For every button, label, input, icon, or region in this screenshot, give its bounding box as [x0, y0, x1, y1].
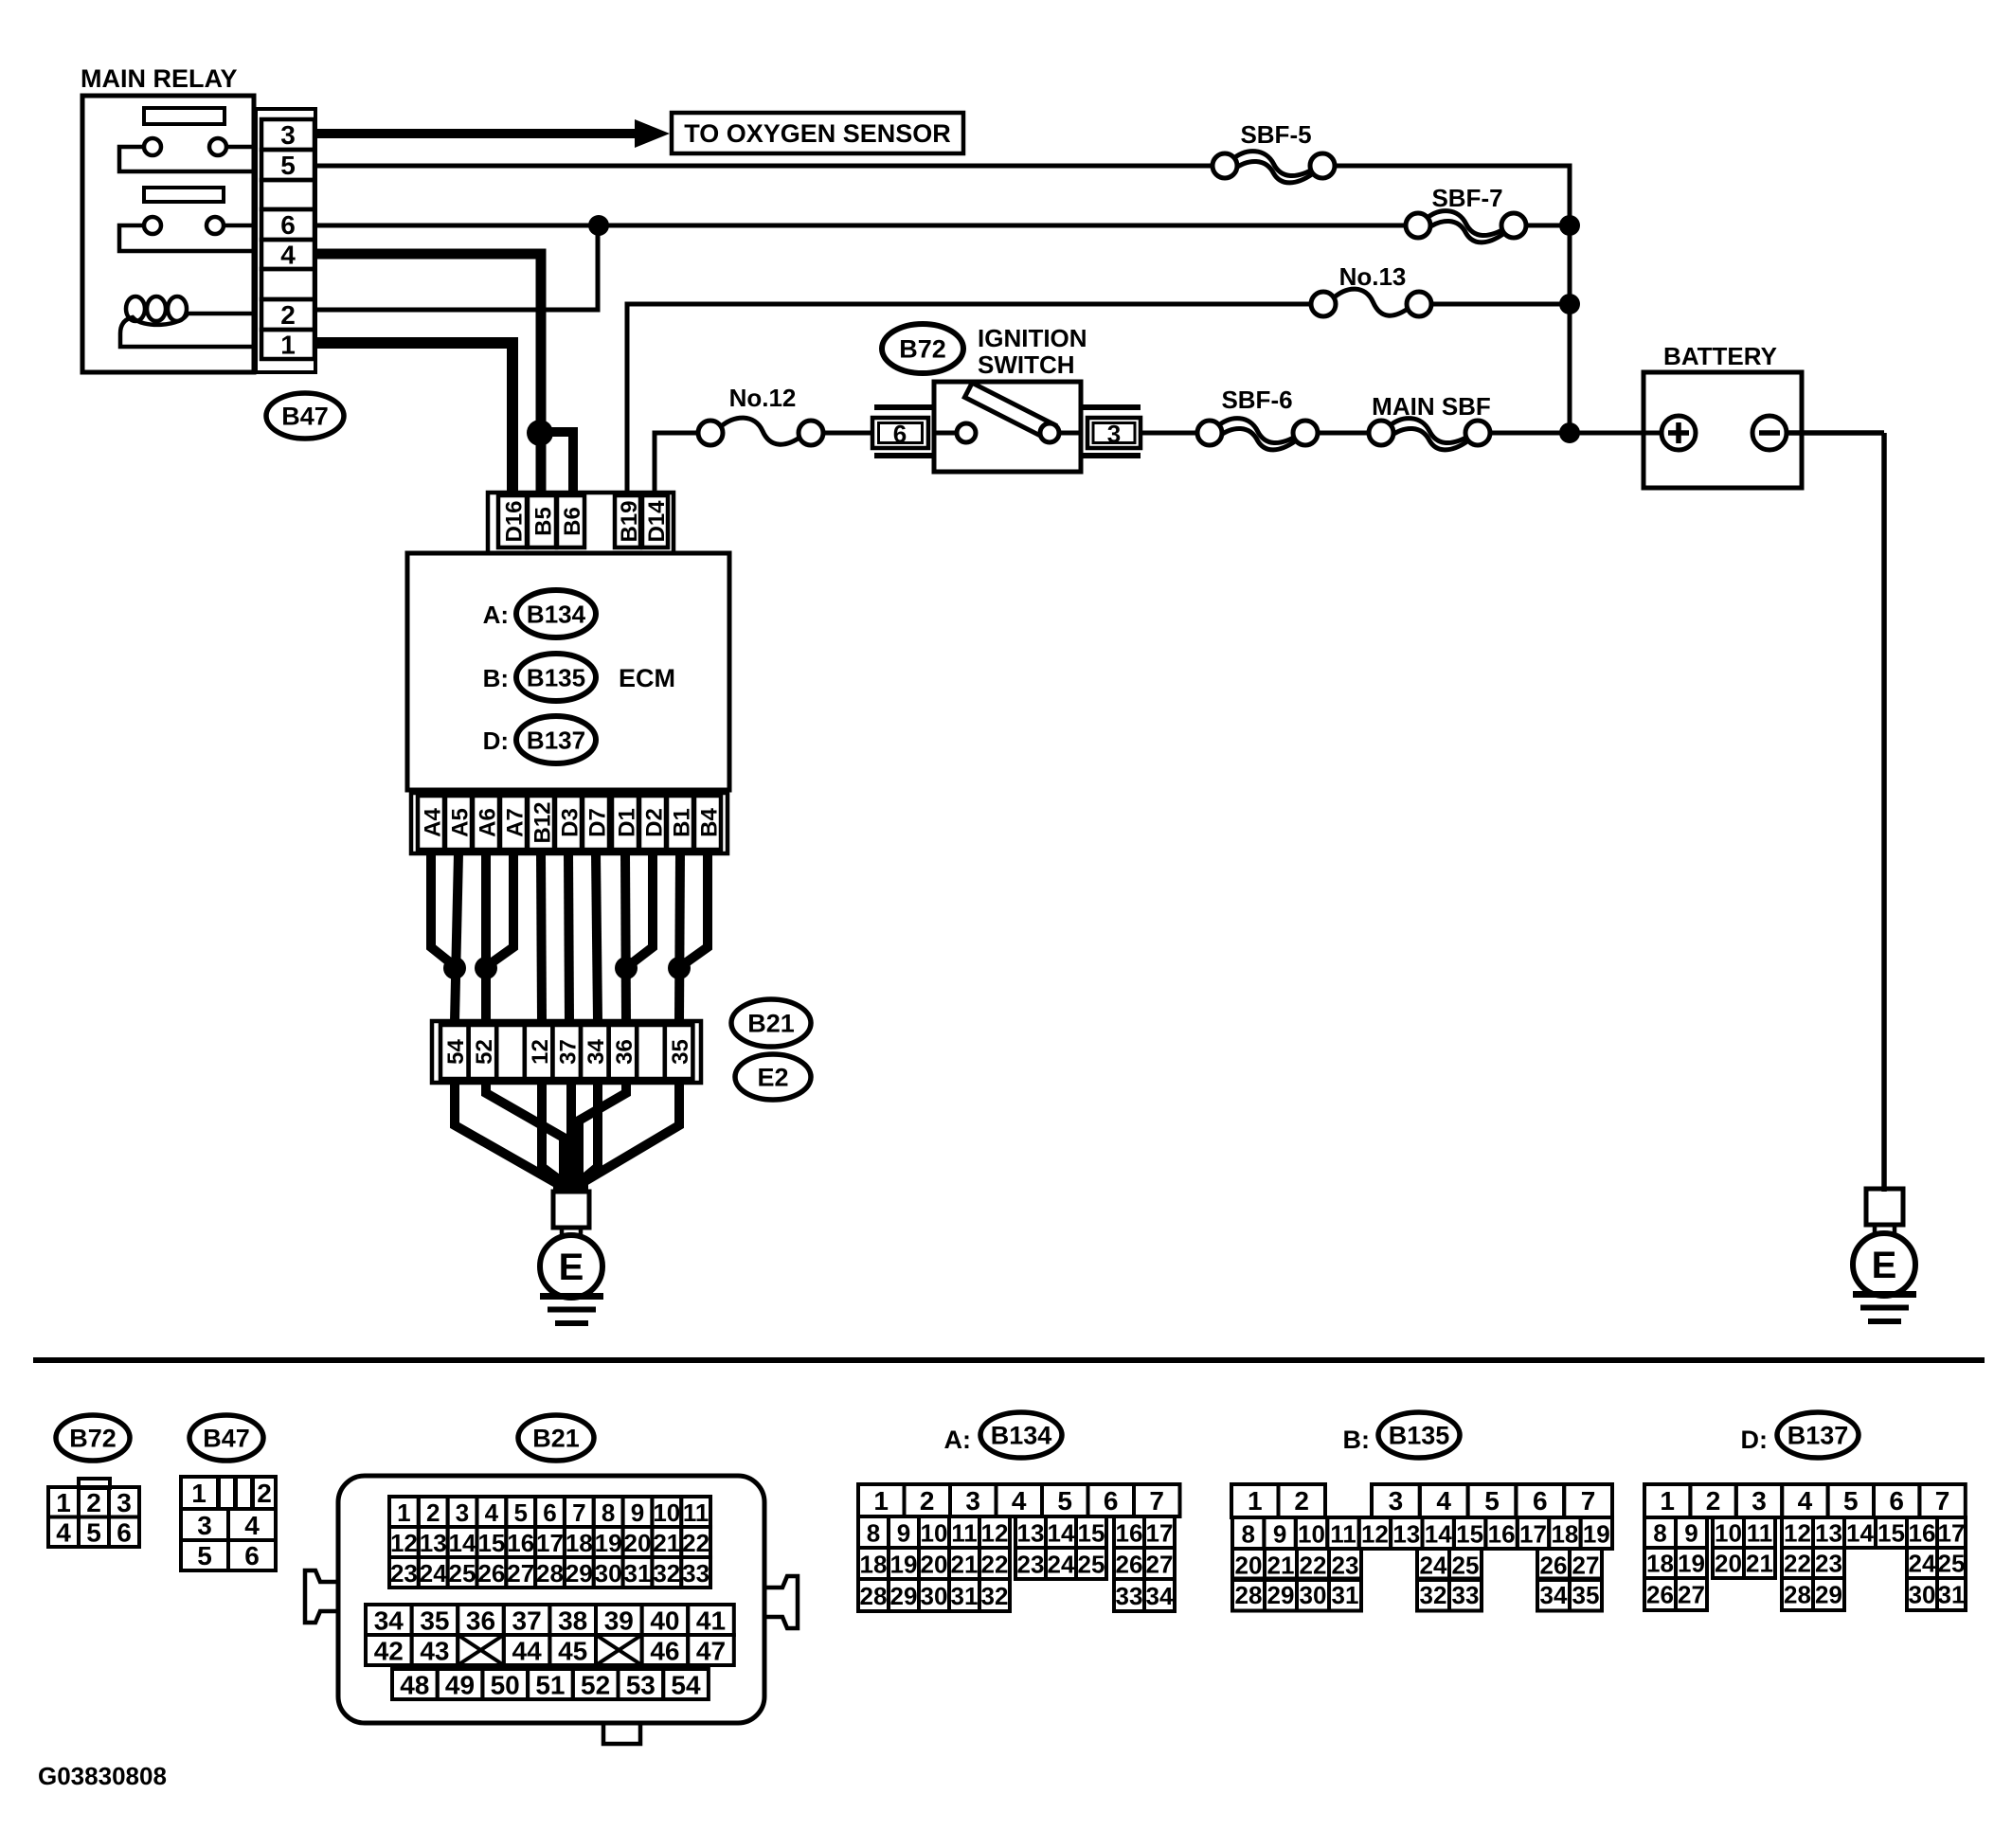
svg-text:12: 12 — [528, 1039, 553, 1065]
svg-text:54: 54 — [671, 1671, 701, 1700]
ECM pin D2 box — [639, 796, 666, 850]
svg-text:37: 37 — [512, 1606, 542, 1636]
splice pin blank box — [637, 1025, 665, 1079]
arrowhead — [635, 119, 670, 148]
svg-text:16: 16 — [1116, 1519, 1143, 1548]
svg-text:33: 33 — [1116, 1582, 1143, 1610]
svg-text:39: 39 — [604, 1606, 634, 1636]
svg-text:7: 7 — [1581, 1486, 1596, 1516]
svg-text:52: 52 — [581, 1671, 610, 1700]
svg-text:30: 30 — [595, 1559, 622, 1588]
svg-text:31: 31 — [1938, 1581, 1966, 1609]
svg-text:36: 36 — [612, 1039, 638, 1065]
svg-text:31: 31 — [1332, 1581, 1359, 1609]
svg-text:51: 51 — [535, 1671, 565, 1700]
svg-text:24: 24 — [1909, 1550, 1936, 1578]
wire D1 down — [625, 853, 626, 1021]
ECM pin B12 box — [528, 796, 554, 850]
switch contact circles — [957, 423, 1059, 442]
svg-text:15: 15 — [1078, 1519, 1105, 1548]
svg-text:28: 28 — [536, 1559, 564, 1588]
svg-text:6: 6 — [1104, 1486, 1119, 1516]
wire splice 12 to ground — [542, 1083, 567, 1192]
left ground neck — [560, 1228, 565, 1237]
svg-text:11: 11 — [1747, 1519, 1773, 1548]
svg-text:8: 8 — [867, 1519, 880, 1548]
svg-text:A4: A4 — [420, 808, 445, 837]
svg-text:B21: B21 — [532, 1425, 580, 1453]
svg-text:20: 20 — [624, 1529, 652, 1557]
svg-text:35: 35 — [420, 1606, 449, 1636]
svg-text:11: 11 — [951, 1519, 978, 1548]
svg-text:3: 3 — [1107, 420, 1121, 448]
wire contact2 arm to pin 4 — [119, 225, 258, 251]
ECM pin D16 box — [498, 495, 527, 547]
svg-text:9: 9 — [897, 1519, 910, 1548]
svg-text:29: 29 — [890, 1582, 918, 1610]
connector B72 pinout oval — [56, 1415, 130, 1461]
svg-text:3: 3 — [1389, 1486, 1404, 1516]
svg-text:47: 47 — [696, 1637, 726, 1666]
svg-text:D:: D: — [1741, 1426, 1769, 1454]
svg-text:A5: A5 — [447, 808, 473, 837]
splice pin 35 box — [665, 1025, 693, 1079]
B21 bottom tab — [603, 1723, 640, 1744]
svg-text:No.12: No.12 — [729, 384, 797, 412]
ECM pin B6 box — [557, 495, 584, 547]
svg-text:34: 34 — [1540, 1581, 1568, 1609]
relay pin 3 box — [261, 119, 314, 150]
svg-text:B134: B134 — [527, 601, 586, 629]
svg-text:12: 12 — [390, 1529, 418, 1557]
svg-text:1: 1 — [56, 1488, 71, 1517]
right ground riser wire — [1881, 433, 1887, 1192]
svg-text:B1: B1 — [669, 808, 694, 837]
relay pin 6 box — [261, 209, 314, 240]
svg-text:2: 2 — [1706, 1486, 1721, 1516]
svg-text:A:: A: — [483, 601, 509, 629]
wire B12 down — [541, 853, 542, 1021]
svg-text:5: 5 — [197, 1541, 212, 1570]
svg-text:43: 43 — [420, 1637, 449, 1666]
svg-text:5: 5 — [86, 1518, 101, 1548]
wire A6 down — [481, 853, 491, 1021]
svg-text:3: 3 — [1752, 1486, 1767, 1516]
svg-text:29: 29 — [566, 1559, 593, 1588]
ECM pin B4 box — [694, 796, 721, 850]
svg-text:17: 17 — [536, 1529, 564, 1557]
svg-text:34: 34 — [1146, 1582, 1174, 1610]
relay contact 2 points — [144, 217, 224, 234]
svg-text:18: 18 — [1551, 1520, 1578, 1549]
svg-text:9: 9 — [1684, 1519, 1698, 1548]
splice pin 37 box — [552, 1025, 581, 1079]
svg-text:16: 16 — [1488, 1520, 1516, 1549]
wire D14 riser to No.12 — [655, 433, 698, 495]
svg-text:10: 10 — [653, 1498, 680, 1527]
svg-text:20: 20 — [921, 1551, 948, 1579]
svg-text:14: 14 — [1846, 1519, 1874, 1548]
svg-text:2: 2 — [257, 1479, 272, 1508]
relay contact 2 slot — [144, 188, 224, 202]
svg-text:32: 32 — [653, 1559, 680, 1588]
wire B1 down — [679, 853, 680, 1021]
wire relay pin1 to ECM D16 (thick) — [315, 343, 512, 495]
svg-text:44: 44 — [512, 1637, 543, 1666]
svg-text:29: 29 — [1267, 1581, 1295, 1609]
ECM connector ref A: B134 — [483, 590, 596, 637]
wire relay pin4 to ECM B5 (thick) — [315, 254, 541, 495]
ground E circle left — [540, 1235, 602, 1298]
wire A4 down — [431, 853, 455, 966]
battery plus terminal — [1662, 416, 1696, 450]
connector E2 oval — [735, 1054, 811, 1100]
svg-text:14: 14 — [1048, 1519, 1075, 1548]
svg-text:27: 27 — [1678, 1581, 1705, 1609]
connector B21 pinout oval — [518, 1415, 594, 1461]
ignition switch pin 6 — [872, 407, 934, 456]
connector B47 oval — [266, 393, 344, 439]
svg-text:B72: B72 — [69, 1425, 117, 1453]
svg-text:MAIN RELAY: MAIN RELAY — [81, 64, 238, 93]
svg-text:27: 27 — [1572, 1552, 1600, 1580]
svg-text:46: 46 — [650, 1637, 679, 1666]
left ground connector box — [553, 1192, 589, 1228]
svg-text:E2: E2 — [757, 1064, 788, 1092]
svg-text:12: 12 — [1784, 1519, 1811, 1548]
svg-text:B5: B5 — [530, 507, 556, 536]
svg-text:4: 4 — [280, 241, 296, 270]
ECM pin D3 box — [555, 796, 582, 850]
svg-text:32: 32 — [1420, 1581, 1447, 1609]
connector B21 oval — [731, 999, 811, 1047]
svg-text:30: 30 — [1300, 1581, 1327, 1609]
svg-text:17: 17 — [1519, 1520, 1547, 1549]
svg-text:8: 8 — [1241, 1520, 1254, 1549]
svg-text:4: 4 — [1012, 1486, 1027, 1516]
svg-text:D2: D2 — [641, 808, 667, 837]
svg-text:33: 33 — [1452, 1581, 1480, 1609]
svg-text:7: 7 — [1935, 1486, 1950, 1516]
junction dot main vertical/battery feed — [1559, 422, 1580, 443]
svg-text:A:: A: — [944, 1426, 972, 1454]
svg-text:4: 4 — [1798, 1486, 1813, 1516]
svg-text:D1: D1 — [614, 808, 639, 837]
svg-text:33: 33 — [682, 1559, 710, 1588]
svg-text:23: 23 — [1017, 1551, 1045, 1579]
wire A7 down — [487, 853, 513, 966]
svg-text:21: 21 — [1267, 1552, 1295, 1580]
svg-text:49: 49 — [445, 1671, 475, 1700]
svg-text:28: 28 — [1784, 1581, 1811, 1609]
connector D: B137 pinout — [1741, 1412, 1859, 1458]
svg-text:3: 3 — [280, 120, 296, 150]
wire A5 down — [455, 853, 458, 1021]
svg-text:31: 31 — [624, 1559, 652, 1588]
svg-text:22: 22 — [981, 1551, 1009, 1579]
svg-text:20: 20 — [1235, 1552, 1263, 1580]
svg-text:B47: B47 — [281, 403, 329, 431]
fuse SBF-7 — [1406, 211, 1526, 242]
svg-text:12: 12 — [981, 1519, 1009, 1548]
B21 middle grid rows 34-47 — [366, 1605, 734, 1666]
svg-text:30: 30 — [1909, 1581, 1936, 1609]
svg-text:10: 10 — [921, 1519, 948, 1548]
svg-text:G03830808: G03830808 — [38, 1762, 167, 1790]
wire relay pin5 to SBF-5 — [315, 164, 1214, 169]
svg-text:1: 1 — [191, 1479, 207, 1508]
svg-text:31: 31 — [951, 1582, 979, 1610]
svg-text:B:: B: — [483, 664, 509, 692]
svg-text:13: 13 — [1392, 1520, 1420, 1549]
svg-text:37: 37 — [556, 1039, 582, 1065]
wire out of switch — [1059, 431, 1081, 436]
wire contact1 to pin 3 — [226, 145, 258, 150]
svg-text:B19: B19 — [617, 500, 642, 542]
svg-text:6: 6 — [244, 1541, 260, 1570]
fuse SBF-5 — [1213, 152, 1335, 183]
svg-text:26: 26 — [1116, 1551, 1143, 1579]
svg-text:50: 50 — [491, 1671, 520, 1700]
wire battery minus to ground riser — [1787, 430, 1884, 436]
svg-text:E: E — [1872, 1245, 1897, 1286]
ECM pin B5 box — [528, 495, 556, 547]
svg-text:SBF-7: SBF-7 — [1431, 184, 1502, 212]
svg-text:1: 1 — [1660, 1486, 1675, 1516]
ground E circle right — [1853, 1233, 1915, 1296]
svg-text:10: 10 — [1715, 1519, 1742, 1548]
relay pin blank box — [261, 269, 314, 299]
svg-text:35: 35 — [668, 1039, 693, 1065]
ECM top connector outline — [488, 493, 674, 553]
svg-text:19: 19 — [890, 1551, 918, 1579]
splice pin 36 box — [609, 1025, 638, 1079]
right ground connector box — [1866, 1189, 1903, 1225]
svg-text:5: 5 — [1484, 1486, 1500, 1516]
relay pin 2 box — [261, 299, 314, 330]
relay pin blank box — [261, 180, 314, 209]
TO OXYGEN SENSOR box — [672, 113, 963, 153]
svg-text:E: E — [559, 1247, 584, 1288]
svg-text:2: 2 — [920, 1486, 935, 1516]
svg-text:B:: B: — [1343, 1426, 1371, 1454]
svg-text:13: 13 — [1017, 1519, 1045, 1548]
svg-text:30: 30 — [921, 1582, 948, 1610]
svg-text:MAIN SBF: MAIN SBF — [1372, 392, 1491, 421]
svg-text:6: 6 — [280, 210, 296, 240]
svg-text:1: 1 — [280, 331, 296, 360]
svg-text:6: 6 — [893, 420, 907, 448]
B72 connector grid — [48, 1487, 139, 1548]
main vertical bus wire — [1568, 164, 1572, 434]
svg-text:4: 4 — [244, 1511, 260, 1540]
svg-text:25: 25 — [449, 1559, 476, 1588]
svg-text:20: 20 — [1715, 1550, 1742, 1578]
wire splice 52 to ground — [486, 1083, 564, 1192]
B137 grid — [1644, 1484, 1966, 1610]
fuse No.12 — [698, 418, 823, 445]
svg-text:28: 28 — [860, 1582, 888, 1610]
wire splice 54 to ground — [455, 1083, 558, 1192]
svg-text:B4: B4 — [696, 808, 722, 837]
svg-text:ECM: ECM — [619, 664, 675, 692]
junction dot No.13/main vertical — [1559, 294, 1580, 314]
svg-text:12: 12 — [1361, 1520, 1389, 1549]
svg-text:D3: D3 — [557, 808, 583, 837]
svg-text:D7: D7 — [584, 808, 610, 837]
svg-text:B12: B12 — [530, 801, 555, 843]
svg-text:SBF-5: SBF-5 — [1240, 120, 1311, 149]
B47 connector grid — [181, 1477, 276, 1570]
svg-text:4: 4 — [485, 1498, 499, 1527]
svg-text:16: 16 — [507, 1529, 534, 1557]
relay contact 1 points — [144, 138, 226, 155]
svg-text:54: 54 — [443, 1039, 469, 1065]
svg-text:21: 21 — [951, 1551, 979, 1579]
B21 bottom grid 48-54 — [392, 1669, 709, 1700]
ECM connector ref B: B135 — [483, 654, 596, 701]
relay connector strip outline — [256, 109, 315, 372]
ECM pin A6 box — [473, 796, 499, 850]
svg-text:A7: A7 — [502, 808, 528, 837]
wire SBF-7 to main vertical — [1526, 224, 1570, 228]
svg-text:4: 4 — [56, 1518, 71, 1548]
B134 grid — [858, 1484, 1180, 1611]
svg-text:15: 15 — [477, 1529, 505, 1557]
wire SBF-5 to main vertical — [1335, 164, 1572, 169]
svg-text:5: 5 — [513, 1498, 527, 1527]
wire D2 down — [628, 853, 653, 966]
B21 right tab — [764, 1576, 798, 1628]
svg-text:B21: B21 — [747, 1010, 795, 1038]
svg-text:14: 14 — [449, 1529, 476, 1557]
wire No.13 to main vertical — [1431, 302, 1570, 307]
svg-text:23: 23 — [1815, 1550, 1842, 1578]
svg-text:2: 2 — [1294, 1486, 1309, 1516]
svg-text:D14: D14 — [644, 500, 670, 543]
wire into switch — [934, 431, 958, 436]
wire splice 36 to ground — [579, 1083, 626, 1192]
svg-text:6: 6 — [1889, 1486, 1904, 1516]
svg-text:9: 9 — [631, 1498, 644, 1527]
svg-text:B137: B137 — [1787, 1422, 1849, 1450]
svg-text:IGNITION: IGNITION — [978, 324, 1087, 352]
ECM pin A5 box — [445, 796, 472, 850]
svg-text:10: 10 — [1298, 1520, 1325, 1549]
svg-text:6: 6 — [1533, 1486, 1548, 1516]
svg-text:11: 11 — [683, 1498, 710, 1527]
svg-text:D:: D: — [483, 727, 509, 755]
wire B19 riser to No.13 — [627, 304, 1311, 495]
svg-text:32: 32 — [981, 1582, 1009, 1610]
left ground hatch — [540, 1297, 603, 1324]
connector B: B135 pinout — [1343, 1412, 1461, 1458]
wire SBF-6 to MAIN SBF — [1318, 431, 1371, 436]
svg-text:5: 5 — [1057, 1486, 1072, 1516]
splice pin 54 box — [440, 1025, 469, 1079]
svg-text:14: 14 — [1425, 1520, 1452, 1549]
ECM pin B1 box — [667, 796, 693, 850]
B21 connector body — [338, 1476, 764, 1723]
svg-text:45: 45 — [558, 1637, 587, 1666]
svg-text:24: 24 — [420, 1559, 447, 1588]
wire relay pin2 up to pin6 line — [315, 227, 598, 310]
svg-text:26: 26 — [1646, 1581, 1674, 1609]
wire contact2 to pin 6 — [224, 224, 258, 228]
svg-text:25: 25 — [1938, 1550, 1966, 1578]
main relay box — [82, 96, 254, 372]
splice pin 34 box — [581, 1025, 609, 1079]
svg-text:5: 5 — [280, 151, 296, 180]
wire contact1 arm to pin 5 — [119, 147, 258, 171]
fuse SBF-6 — [1197, 419, 1318, 450]
svg-text:52: 52 — [472, 1039, 497, 1065]
svg-text:TO OXYGEN SENSOR: TO OXYGEN SENSOR — [684, 119, 951, 148]
svg-text:BATTERY: BATTERY — [1663, 342, 1777, 370]
svg-text:35: 35 — [1572, 1581, 1600, 1609]
svg-text:17: 17 — [1938, 1519, 1966, 1548]
wire MAIN SBF to battery — [1490, 431, 1662, 436]
svg-text:13: 13 — [420, 1529, 447, 1557]
svg-text:22: 22 — [1300, 1552, 1327, 1580]
relay pin 5 box — [261, 150, 314, 180]
svg-text:B135: B135 — [527, 664, 585, 692]
svg-text:11: 11 — [1330, 1520, 1356, 1549]
svg-text:4: 4 — [1436, 1486, 1451, 1516]
svg-text:28: 28 — [1235, 1581, 1263, 1609]
fuse No.13 — [1311, 289, 1431, 316]
svg-text:2: 2 — [86, 1488, 101, 1517]
ignition switch box — [934, 382, 1081, 472]
svg-text:29: 29 — [1815, 1581, 1842, 1609]
right ground hatch — [1853, 1295, 1916, 1322]
svg-text:SWITCH: SWITCH — [978, 350, 1075, 379]
wire switch to SBF-6 — [1141, 431, 1199, 436]
wire branch to ECM B6 (thick) — [542, 432, 573, 495]
ECM pin D7 box — [583, 796, 609, 850]
svg-text:1: 1 — [873, 1486, 889, 1516]
junction dot pin6/pin2 — [588, 215, 609, 236]
svg-text:15: 15 — [1877, 1519, 1905, 1548]
svg-text:27: 27 — [507, 1559, 534, 1588]
relay pin 4 box — [261, 240, 314, 269]
connector B72 oval — [882, 324, 963, 373]
ECM box — [407, 553, 729, 790]
svg-text:3: 3 — [117, 1488, 132, 1517]
ECM pin B19 box — [615, 495, 640, 547]
right ground neck — [1873, 1225, 1877, 1234]
svg-text:22: 22 — [682, 1529, 710, 1557]
separator line — [33, 1357, 1985, 1363]
svg-text:25: 25 — [1452, 1552, 1480, 1580]
ECM pin D14 box — [642, 495, 668, 547]
ECM connector ref D: B137 — [483, 716, 596, 763]
wire No.12 to ignition switch — [823, 431, 872, 436]
connector B47 pinout oval — [189, 1415, 263, 1461]
svg-text:6: 6 — [117, 1518, 132, 1548]
svg-text:18: 18 — [1646, 1550, 1674, 1578]
svg-text:19: 19 — [1678, 1550, 1705, 1578]
wire D3 down — [568, 853, 569, 1021]
ECM pin A7 box — [500, 796, 527, 850]
svg-text:27: 27 — [1146, 1551, 1174, 1579]
svg-text:19: 19 — [1583, 1520, 1610, 1549]
svg-text:36: 36 — [466, 1606, 495, 1636]
svg-text:42: 42 — [374, 1637, 404, 1666]
svg-text:19: 19 — [595, 1529, 622, 1557]
svg-text:17: 17 — [1146, 1519, 1174, 1548]
svg-text:B6: B6 — [560, 507, 585, 536]
